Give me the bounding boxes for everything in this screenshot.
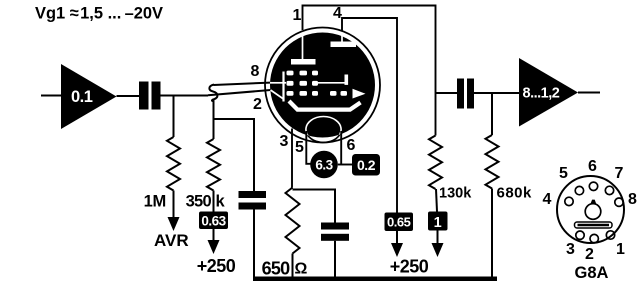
- svg-text:+250: +250: [390, 257, 429, 277]
- svg-text:1: 1: [293, 7, 302, 24]
- svg-text:5: 5: [295, 139, 304, 156]
- svg-text:8: 8: [628, 191, 637, 208]
- svg-text:G8A: G8A: [575, 264, 609, 282]
- svg-text:AVR: AVR: [154, 231, 189, 250]
- svg-text:6.3: 6.3: [315, 158, 333, 173]
- svg-text:1M: 1M: [144, 193, 166, 211]
- svg-text:+250: +250: [197, 256, 236, 276]
- svg-text:650: 650: [262, 259, 291, 279]
- svg-text:350: 350: [186, 193, 212, 211]
- svg-text:Ω: Ω: [295, 261, 308, 278]
- svg-text:6: 6: [588, 158, 597, 175]
- svg-text:5: 5: [559, 165, 568, 182]
- svg-text:0.65: 0.65: [387, 215, 411, 230]
- svg-text:6: 6: [347, 137, 356, 154]
- svg-text:8...1,2: 8...1,2: [523, 86, 560, 102]
- svg-text:0.63: 0.63: [201, 214, 226, 229]
- svg-text:3: 3: [280, 133, 289, 150]
- svg-text:7: 7: [615, 165, 624, 182]
- svg-text:8: 8: [251, 63, 260, 80]
- svg-text:2: 2: [585, 246, 594, 263]
- svg-text:0.2: 0.2: [357, 157, 376, 173]
- svg-text:Vg1 ≈ 1,5 ... –20V: Vg1 ≈ 1,5 ... –20V: [35, 4, 164, 23]
- svg-text:680k: 680k: [497, 185, 533, 202]
- svg-text:2: 2: [253, 96, 262, 113]
- svg-text:130k: 130k: [439, 186, 472, 202]
- svg-text:3: 3: [566, 241, 575, 258]
- svg-text:4: 4: [333, 5, 342, 22]
- svg-text:1: 1: [434, 215, 442, 231]
- svg-text:k: k: [216, 193, 226, 211]
- svg-text:0.1: 0.1: [71, 88, 93, 106]
- svg-text:4: 4: [543, 191, 552, 208]
- svg-text:1: 1: [616, 241, 625, 258]
